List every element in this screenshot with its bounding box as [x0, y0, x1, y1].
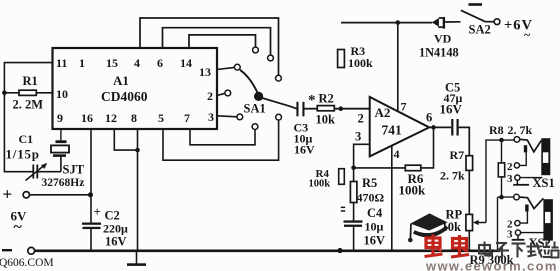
- watermark char zhan: [546, 242, 548, 247]
- capacitor C5 plate2: [457, 119, 459, 136]
- SA1 contact SW: [237, 114, 243, 120]
- jack XS2 plug groove: [545, 212, 551, 223]
- svg-text:16V: 16V: [105, 235, 127, 249]
- svg-text:100k: 100k: [399, 183, 427, 198]
- wire crystal to pin9: [60, 157, 62, 172]
- SA1 contact W: [225, 90, 231, 96]
- wire top rail: [341, 22, 432, 24]
- svg-text:www.eeworm.com: www.eeworm.com: [425, 259, 558, 271]
- svg-text:Q606.COM: Q606.COM: [0, 257, 54, 269]
- wire R1 right lead: [36, 92, 52, 94]
- crystal SJT body: [51, 145, 69, 152]
- svg-text:1: 1: [79, 56, 85, 70]
- XS2 contact3 stub: [517, 235, 519, 240]
- wire node to R6: [354, 167, 406, 169]
- svg-text:16V: 16V: [364, 234, 386, 248]
- svg-text:VD: VD: [434, 32, 452, 46]
- jack XS1 contact 2: [514, 163, 519, 168]
- jack XS1 contact2 riser: [520, 153, 527, 166]
- wire pin7 to S contact: [190, 129, 255, 145]
- diode VD serif top: [439, 17, 443, 19]
- wire R5 to C4: [353, 203, 355, 221]
- svg-text:+: +: [94, 204, 101, 219]
- SA2 fixed bar: [469, 3, 483, 6]
- battery negative sign: [2, 249, 12, 251]
- svg-text:C2: C2: [105, 209, 120, 223]
- SA2 arm: [461, 10, 486, 21]
- wire C3 to R2: [305, 108, 318, 110]
- svg-text:16: 16: [81, 111, 93, 125]
- capacitor C2 bottom plate: [83, 227, 101, 229]
- svg-text:+: +: [3, 185, 13, 204]
- wire diode to SA2: [445, 21, 460, 23]
- wire R8 top lead: [501, 140, 503, 163]
- node battery junction: [88, 192, 93, 197]
- svg-text:9: 9: [57, 111, 63, 125]
- svg-text:XS1: XS1: [533, 176, 555, 190]
- node output junction: [431, 125, 436, 130]
- jack XS1 contact 3: [515, 175, 520, 180]
- svg-text:3: 3: [355, 130, 361, 144]
- wire pin2 to W contact: [217, 93, 225, 95]
- node pin12-pin8 junction: [135, 148, 140, 153]
- wire R6 to output: [421, 127, 434, 167]
- SA1 contact NE: [268, 55, 274, 61]
- wire XS2 feed: [498, 196, 514, 198]
- crystal SJT top plate: [56, 140, 67, 143]
- SA1 wiper pivot: [254, 92, 263, 101]
- svg-text:2: 2: [507, 161, 513, 173]
- svg-text:6: 6: [157, 56, 163, 70]
- svg-text:R2: R2: [319, 92, 334, 106]
- svg-text:7: 7: [401, 100, 407, 114]
- svg-text:100k: 100k: [309, 179, 331, 190]
- SA2 terminal: [494, 19, 500, 25]
- jack XS2 spring arm: [519, 197, 543, 209]
- svg-text:1/15p: 1/15p: [6, 147, 40, 162]
- wire pin11 to left bus: [4, 62, 52, 64]
- jack XS2 contact2 riser: [520, 212, 527, 224]
- capacitor C3 plate2: [302, 102, 304, 117]
- wire R9 drop: [497, 197, 499, 251]
- wire pin16 down: [90, 129, 92, 223]
- jack XS2 sleeve wire: [521, 232, 544, 234]
- svg-text:2. 2M: 2. 2M: [13, 98, 44, 112]
- svg-text:SA1: SA1: [244, 102, 266, 116]
- wire RP to ground: [468, 231, 470, 251]
- jack XS2 contact 3: [515, 230, 520, 235]
- svg-text:2: 2: [207, 89, 213, 103]
- svg-text:CD4060: CD4060: [101, 89, 148, 104]
- wire node to R5: [353, 168, 355, 182]
- wire R7 to RP: [468, 170, 470, 214]
- svg-text:A2: A2: [375, 105, 391, 120]
- watermark cap board: [410, 213, 447, 230]
- wire C5 to R7: [459, 127, 470, 155]
- svg-text:11: 11: [56, 56, 67, 70]
- SA1 contact N: [253, 47, 259, 53]
- ground symbol: [136, 252, 138, 264]
- capacitor C4 bottom plate: [344, 225, 362, 227]
- capacitor C4 top plate: [344, 220, 363, 222]
- wire pin6 to NE contact: [163, 28, 271, 55]
- svg-text:32768Hz: 32768Hz: [42, 177, 85, 189]
- svg-text:SA2: SA2: [469, 23, 491, 37]
- resistor R2: [317, 106, 334, 111]
- jack XS1 tip contact: [514, 137, 520, 143]
- wire output lead: [429, 126, 451, 128]
- svg-text:1N4148: 1N4148: [419, 46, 459, 60]
- svg-text:7: 7: [184, 111, 190, 125]
- resistor R1: [19, 90, 36, 95]
- resistor R5: [350, 182, 357, 203]
- svg-text:220μ: 220μ: [103, 222, 128, 236]
- op-amp A2 triangle: [370, 97, 430, 156]
- diode VD triangle: [432, 18, 439, 27]
- svg-text:4: 4: [394, 147, 400, 161]
- svg-text:~: ~: [524, 28, 531, 42]
- node pin3 junction: [351, 166, 356, 171]
- SA1 contact SE: [276, 114, 282, 120]
- wire wiper riser: [486, 140, 514, 222]
- svg-text:15: 15: [106, 56, 118, 70]
- node R4 rail junction: [337, 248, 342, 253]
- resistor R8: [498, 163, 504, 177]
- wire pin12 down: [114, 129, 137, 150]
- wire pin3 to SW contact: [217, 116, 237, 117]
- wire pin4 down: [391, 146, 393, 251]
- svg-text:10k: 10k: [442, 220, 462, 234]
- svg-text:*: *: [308, 93, 316, 109]
- node XS2 feed junction: [499, 195, 504, 200]
- svg-text:R7: R7: [450, 148, 465, 162]
- resistor R6: [405, 165, 421, 171]
- watermark cap stripe: [414, 224, 447, 232]
- svg-text:5: 5: [158, 111, 164, 125]
- svg-text:SJT: SJT: [63, 163, 85, 177]
- wire bus to C1: [4, 171, 32, 173]
- C1 trimmer arrow: [26, 164, 47, 181]
- svg-text:6: 6: [426, 111, 432, 125]
- wire pin7 to rail: [397, 23, 399, 111]
- jack XS1 sleeve wire: [520, 177, 543, 179]
- svg-text:3: 3: [507, 229, 513, 241]
- SA1 wiper arm: [240, 70, 257, 93]
- crystal SJT bottom plate: [53, 154, 66, 157]
- svg-text:R5: R5: [362, 176, 377, 190]
- RP wiper arrow: [476, 222, 486, 224]
- jack XS2 tip contact: [514, 194, 520, 200]
- wire ground rail: [35, 250, 500, 253]
- diode VD cathode bar: [443, 17, 445, 29]
- svg-text:16V: 16V: [440, 102, 463, 117]
- svg-text:8: 8: [131, 111, 137, 125]
- watermark chong2: [453, 239, 467, 249]
- battery negative terminal: [28, 247, 35, 254]
- svg-text:100k: 100k: [348, 56, 373, 70]
- wire pin4 to E contact: [140, 18, 279, 75]
- node inverting input junction: [339, 106, 344, 111]
- svg-text:10k: 10k: [316, 113, 336, 127]
- svg-text:13: 13: [199, 65, 211, 79]
- wire pin14 to N contact: [189, 35, 256, 48]
- wire pin13 to NW contact: [217, 67, 234, 69]
- svg-text:741: 741: [382, 123, 403, 138]
- capacitor C3 plate1: [296, 102, 298, 117]
- watermark char xia: [512, 242, 526, 244]
- svg-text:16V: 16V: [294, 143, 315, 157]
- wire R1 left lead: [4, 92, 19, 94]
- SA1 contact NW: [234, 64, 240, 70]
- watermark cap brim: [414, 227, 447, 236]
- wire SA2 stub: [485, 21, 494, 23]
- wire pin3 lead: [354, 144, 370, 168]
- wire pin8 to ground: [137, 129, 139, 251]
- watermark cap tassel: [409, 224, 412, 239]
- jack XS1 plug groove: [543, 152, 549, 163]
- IC U/A1 CD4060 body: [53, 48, 218, 129]
- svg-text:3: 3: [507, 173, 513, 185]
- node R8 top junction: [499, 138, 504, 143]
- svg-text:R8: R8: [489, 123, 504, 137]
- watermark char zi: [496, 242, 507, 244]
- wire pin5 to SE contact: [163, 120, 279, 160]
- wire SA1 wiper to C3: [261, 98, 297, 109]
- svg-text:2: 2: [358, 112, 364, 126]
- potentiometer RP: [466, 214, 473, 230]
- svg-text:C4: C4: [367, 206, 383, 220]
- wire R2 to op-amp pin2: [334, 108, 369, 110]
- watermark char dian: [479, 245, 490, 254]
- svg-text:470Ω: 470Ω: [357, 191, 385, 205]
- wire R8 bottom lead: [501, 177, 503, 197]
- wire C1 to crystal: [37, 171, 61, 173]
- svg-text:A1: A1: [113, 73, 129, 88]
- svg-text:2. 7k: 2. 7k: [508, 123, 533, 137]
- wire C4 to ground: [353, 227, 355, 251]
- capacitor C1 trimmer plate1: [32, 165, 34, 179]
- XS1 contact3 stub: [516, 180, 518, 185]
- capacitor C1 trimmer plate2: [36, 165, 38, 179]
- resistor R4: [339, 169, 345, 185]
- jack XS2 plug body: [543, 199, 553, 240]
- watermark chong1: [426, 238, 440, 248]
- jack XS1 spring arm: [520, 139, 542, 151]
- C4 plus mark: [341, 207, 345, 209]
- capacitor C2 top plate: [82, 223, 101, 225]
- jack XS2 contact 2: [515, 221, 520, 226]
- battery positive terminal: [23, 192, 29, 198]
- svg-text:R1: R1: [23, 74, 38, 88]
- jack XS1 plug body: [541, 138, 550, 175]
- svg-text:4: 4: [134, 56, 140, 70]
- SA1 contact S: [252, 124, 258, 130]
- wire battery+ to C2 node: [30, 194, 91, 196]
- capacitor C5 plate1: [451, 119, 453, 136]
- node R1 left junction: [2, 91, 7, 96]
- wire C2 to ground: [90, 229, 92, 251]
- svg-text:10μ: 10μ: [365, 220, 384, 234]
- svg-text:3: 3: [208, 110, 214, 124]
- svg-text:2. 7k: 2. 7k: [440, 169, 465, 183]
- resistor R7: [466, 156, 473, 171]
- SA1 contact E: [276, 75, 282, 81]
- svg-text:14: 14: [180, 56, 192, 70]
- svg-text:~: ~: [14, 219, 23, 236]
- wire left vertical bus: [3, 62, 5, 173]
- resistor R3: [338, 50, 345, 68]
- node pin7 rail junction: [396, 20, 401, 25]
- diode VD serif bottom: [438, 26, 443, 28]
- svg-text:10: 10: [56, 87, 68, 101]
- svg-text:12: 12: [105, 111, 117, 125]
- watermark char zai: [527, 246, 542, 248]
- svg-text:C1: C1: [19, 132, 34, 146]
